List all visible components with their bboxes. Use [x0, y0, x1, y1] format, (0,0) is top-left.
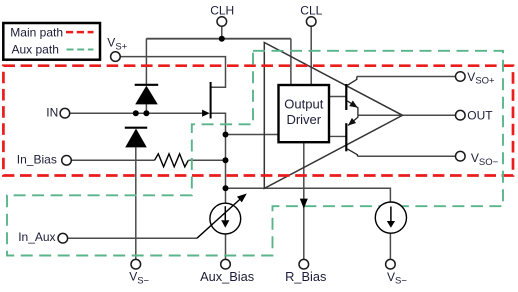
terminal Aux_Bias: [221, 259, 231, 269]
wire diode D2 anode to VS-: [135, 147, 137, 259]
wire R_Bias: [303, 142, 305, 259]
terminal In_Aux: [58, 233, 68, 243]
current source I1 (Aux_Bias, adjustable): [197, 194, 247, 239]
op-amp U1 triangle: [264, 43, 402, 189]
wire diode D1 anode to IN node: [145, 104, 147, 113]
output driver block: [279, 85, 330, 142]
wire top rail down to output driver: [290, 39, 292, 85]
node CLH rail: [219, 36, 225, 42]
terminal CLH: [217, 17, 227, 27]
terminal VS- right: [386, 259, 396, 269]
svg-text:IN: IN: [46, 106, 58, 120]
svg-text:CLH: CLH: [210, 4, 234, 18]
transistor Q1 (input JFET): [202, 82, 211, 118]
node IN/D2: [133, 110, 139, 116]
svg-text:Output: Output: [284, 97, 323, 112]
wire VS+ to JFET drain: [120, 57, 225, 88]
terminal VSO-: [456, 151, 466, 161]
svg-text:In_Bias: In_Bias: [17, 152, 57, 166]
wire right current source to VS-: [389, 233, 391, 259]
terminal VS- left: [131, 259, 141, 269]
main path boundary (red dashed): [3, 66, 513, 176]
wire aux to R bias source (y=188.8): [226, 188, 391, 202]
svg-text:CLL: CLL: [300, 4, 322, 18]
terminal VSO+: [456, 72, 466, 82]
terminal OUT: [456, 110, 466, 120]
svg-text:Driver: Driver: [286, 112, 321, 127]
wire JFET source: [211, 113, 226, 134]
wire clamp diode branch (x=146): [145, 39, 147, 86]
wire aux vertical (x=225.5): [225, 135, 227, 204]
wire CLH top rail: [146, 38, 291, 40]
wire CLL to output driver: [310, 26, 312, 85]
diode D1 (clamp to CLH): [135, 85, 159, 105]
terminal VS+: [111, 52, 121, 62]
transistor Q3 (PNP, bottom output): [329, 115, 358, 156]
aux path boundary (green dashed): [7, 51, 503, 256]
transistor Q2 (NPN, top output): [329, 77, 358, 116]
wire In_Aux: [68, 237, 197, 239]
svg-text:Aux_Bias: Aux_Bias: [200, 269, 254, 284]
terminal R_Bias: [299, 259, 309, 269]
wire Aux_Bias stub: [225, 234, 227, 260]
svg-text:In_Aux: In_Aux: [18, 230, 55, 244]
wire VSO+ rail: [357, 76, 456, 78]
terminal In_Bias: [62, 156, 72, 166]
node aux/input: [223, 132, 229, 138]
legend box: [3, 23, 100, 60]
terminal IN: [60, 108, 70, 118]
wire VSO- rail: [357, 155, 455, 157]
current source I2 (R_Bias mirror): [375, 202, 406, 233]
svg-text:R_Bias: R_Bias: [285, 269, 326, 284]
terminal CLL: [306, 17, 316, 27]
wire OUT rail: [358, 114, 456, 116]
diode D2 (clamp to VS-): [125, 128, 147, 148]
wire In_Bias right: [188, 159, 225, 161]
svg-text:Aux path: Aux path: [12, 43, 59, 57]
wire op-amp input: [226, 134, 279, 136]
node aux/y189: [223, 185, 229, 191]
resistor R1: [155, 154, 189, 167]
svg-text:OUT: OUT: [467, 108, 493, 122]
wire CLH stub: [221, 26, 223, 39]
R_Bias current direction arrow: [300, 199, 308, 209]
node IN/D1: [143, 110, 149, 116]
wire In_Bias left: [71, 159, 154, 161]
wire IN line: [70, 112, 204, 114]
node aux/In_Bias: [223, 157, 229, 163]
svg-text:Main path: Main path: [10, 26, 63, 40]
